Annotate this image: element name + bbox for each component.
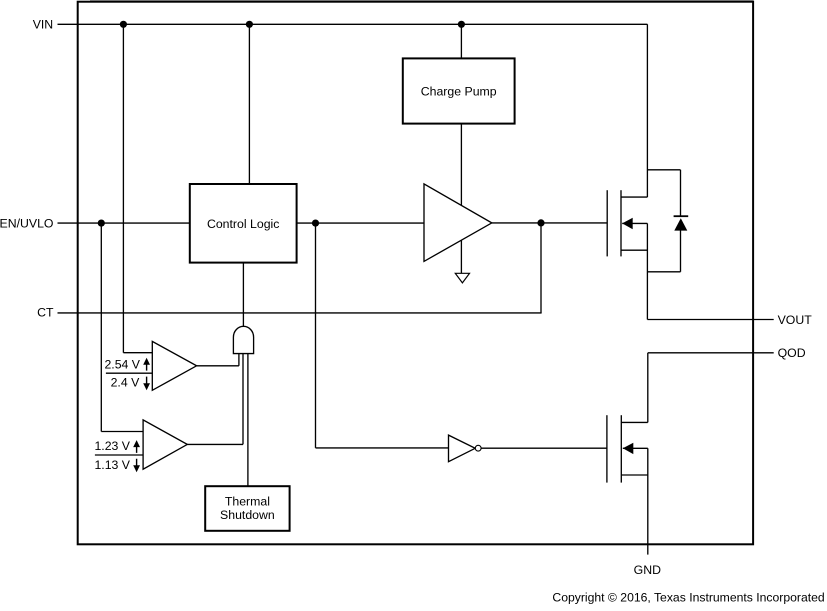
svg-text:Control Logic: Control Logic <box>207 217 279 231</box>
svg-text:Thermal: Thermal <box>225 494 270 508</box>
svg-text:CT: CT <box>37 306 54 320</box>
svg-text:QOD: QOD <box>778 346 806 360</box>
svg-text:Shutdown: Shutdown <box>220 508 275 522</box>
svg-text:Charge Pump: Charge Pump <box>421 84 497 98</box>
svg-text:VOUT: VOUT <box>778 313 813 327</box>
svg-text:EN/UVLO: EN/UVLO <box>0 217 54 231</box>
svg-text:2.4 V: 2.4 V <box>111 376 141 390</box>
svg-text:1.23 V: 1.23 V <box>94 439 130 453</box>
svg-text:VIN: VIN <box>33 18 54 32</box>
svg-text:1.13 V: 1.13 V <box>94 458 130 472</box>
svg-text:2.54 V: 2.54 V <box>104 357 140 371</box>
svg-text:GND: GND <box>634 563 661 577</box>
svg-text:Copyright © 2016, Texas Instru: Copyright © 2016, Texas Instruments Inco… <box>552 590 824 604</box>
